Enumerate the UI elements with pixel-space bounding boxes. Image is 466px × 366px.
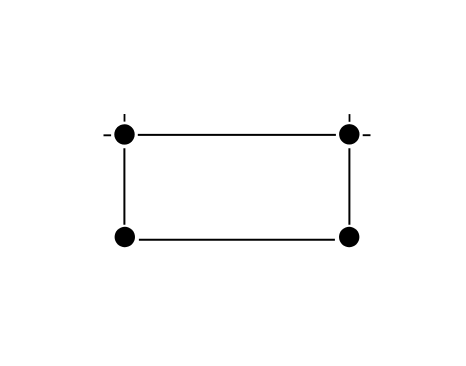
tick above node A [124,114,126,122]
node A (top-left) [114,124,134,144]
node B (top-right) [339,124,359,144]
wire left edge [123,148,125,224]
wire top edge [138,134,336,136]
wire right edge [348,148,350,224]
tick left of node A [104,134,112,136]
node C (bottom-left) [115,227,135,247]
tick above node B [349,114,351,122]
tick right of node B [363,134,371,136]
node D (bottom-right) [339,227,359,247]
wire bottom edge [139,239,335,241]
